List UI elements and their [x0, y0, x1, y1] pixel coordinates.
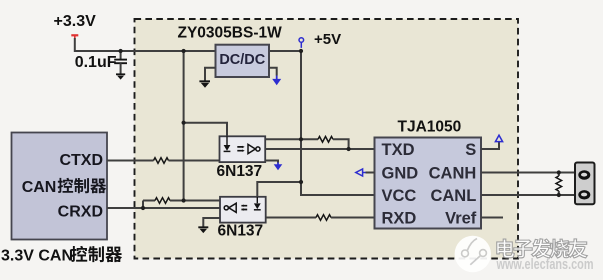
svg-text:RXD: RXD: [382, 209, 417, 227]
svg-text:Vref: Vref: [445, 209, 477, 227]
pin label S: [465, 141, 476, 159]
ground arrow below C1: [116, 74, 125, 79]
wire: +5V rail down to TJA1050 VCC pin: [301, 51, 375, 195]
svg-text:CTXD: CTXD: [59, 152, 103, 169]
power port arrow (blue, left) at GND pin: [356, 169, 366, 176]
wire: +5V to pull-up R3: [301, 138, 318, 140]
watermark text dianzifashaoyou (CJK): [497, 239, 587, 258]
resistor R3 (pull-up on TXD): [318, 137, 333, 143]
wire: CANH to termination resistor: [558, 173, 560, 177]
wire: R3 down to TXD line: [333, 139, 349, 149]
svg-text:6N137: 6N137: [218, 222, 264, 239]
isolated-ground power port (blue) at DC/DC output: [272, 76, 281, 86]
caption 3.3V CAN controller (CJK): [1, 246, 122, 265]
pin label Vref: [445, 209, 477, 227]
pin label GND: [382, 164, 419, 182]
pin label RXD: [382, 209, 417, 227]
wire: 6N137 U2 ground leg: [203, 218, 220, 227]
svg-text:GND: GND: [382, 164, 419, 182]
resistor R5 (120 ohm termination): [556, 176, 562, 191]
svg-text:CRXD: CRXD: [58, 203, 103, 220]
svg-text:TXD: TXD: [382, 141, 415, 159]
svg-text:VCC: VCC: [382, 187, 417, 205]
optocoupler U1 6N137 (transmit): [220, 136, 266, 162]
label +3.3V: [54, 13, 97, 30]
power pin +3.3V (red tick): [71, 35, 78, 38]
wire: CRXD from controller to 6N137 U2 output: [107, 207, 220, 209]
wire: Vref stub: [481, 217, 503, 219]
wire: R1 to 6N137 U1 LED input: [169, 160, 220, 162]
label 0.1uF: [75, 54, 117, 71]
svg-text:CAN: CAN: [22, 179, 57, 196]
CAN bus connector J1: [575, 163, 595, 205]
ground symbol at DC/DC input: [199, 81, 210, 88]
svg-text:+3.3V: +3.3V: [54, 13, 97, 30]
svg-text:TJA1050: TJA1050: [398, 118, 462, 135]
wire: +3.3V rail to DC/DC input: [75, 38, 216, 51]
wire: R4 to TJA1050 RXD: [331, 217, 375, 219]
svg-text:6N137: 6N137: [217, 163, 263, 180]
resistor R2 (pull-up to 3.3V on CRXD): [155, 198, 170, 204]
power port arrow (blue, up) at S pin: [495, 135, 502, 142]
svg-text:www.elecfans.com: www.elecfans.com: [496, 256, 594, 273]
resistor R4 (series, RXD): [316, 215, 331, 221]
wire: 3.3V pull-up left segment: [143, 200, 155, 202]
watermark url www.elecfans.com: [496, 256, 594, 273]
watermark logo circle: [455, 236, 491, 272]
pin label TXD: [382, 141, 415, 159]
svg-text:S: S: [465, 141, 476, 159]
svg-text:ZY0305BS-1W: ZY0305BS-1W: [178, 25, 283, 42]
label 6N137 (U1): [217, 163, 263, 180]
wire: DC/DC output to +5V node: [269, 50, 301, 52]
svg-text:3.3V CAN: 3.3V CAN: [1, 248, 73, 265]
wire: R2 to 6N137 U2 VCC pin: [170, 200, 220, 202]
svg-text:DC/DC: DC/DC: [219, 52, 265, 68]
wire: U1 ground leg: [265, 161, 278, 163]
label TJA1050: [398, 118, 462, 135]
block label CAN controller (CJK): [22, 178, 106, 196]
wire: termination resistor to CANL: [558, 191, 560, 195]
svg-text:CANL: CANL: [430, 187, 476, 205]
wire: 3.3V vertical rail to optocoupler supply: [183, 51, 185, 201]
CAN transceiver TJA1050 (U4): [375, 138, 482, 229]
wire: U2 LED anode to +5V rail: [257, 182, 301, 197]
label +5V: [314, 31, 341, 48]
wire: CANH to connector: [481, 172, 575, 174]
schematic sheet boundary (dashed): [135, 19, 519, 259]
label ZY0305BS-1W: [178, 25, 283, 42]
wire: branch to 6N137 (U1) VCC top pin: [184, 123, 227, 137]
wire: GND pin stub: [366, 172, 375, 174]
wire: U1 output to TJA1050 TXD: [265, 148, 374, 150]
pin label VCC: [382, 187, 417, 205]
wire: CANL to connector: [481, 194, 575, 196]
capacitor C1 0.1uF: [114, 51, 127, 74]
pin label CRXD: [58, 203, 103, 220]
wire: U1 VCC pin to +5V rail: [265, 138, 301, 140]
svg-text:0.1uF: 0.1uF: [75, 54, 117, 71]
wire: U2 LED cathode toward R4: [266, 217, 316, 219]
wire: pull-up riser to CRXD line: [142, 201, 144, 209]
optocoupler U2 6N137 (receive): [220, 197, 266, 223]
label 6N137 (U2): [218, 222, 264, 239]
svg-text:CANH: CANH: [429, 164, 477, 182]
+5V power pin (blue circle): [299, 38, 304, 48]
wire: DC/DC input ground leg: [205, 68, 216, 81]
ground arrow at 6N137 U2: [198, 227, 208, 233]
svg-text:+5V: +5V: [314, 31, 341, 48]
3.3V CAN controller block: [12, 133, 108, 240]
pin label CTXD: [59, 152, 103, 169]
DC/DC converter module U3: [216, 45, 270, 77]
wire: S pin stub: [481, 142, 499, 149]
wire: CTXD from controller: [107, 160, 154, 162]
pin label CANL: [430, 187, 476, 205]
isolated-ground power port (blue) at U1: [274, 163, 283, 171]
resistor R1 (series, CTXD): [154, 158, 169, 164]
wire: DC/DC output ground leg: [269, 68, 277, 76]
pin label CANH: [429, 164, 477, 182]
